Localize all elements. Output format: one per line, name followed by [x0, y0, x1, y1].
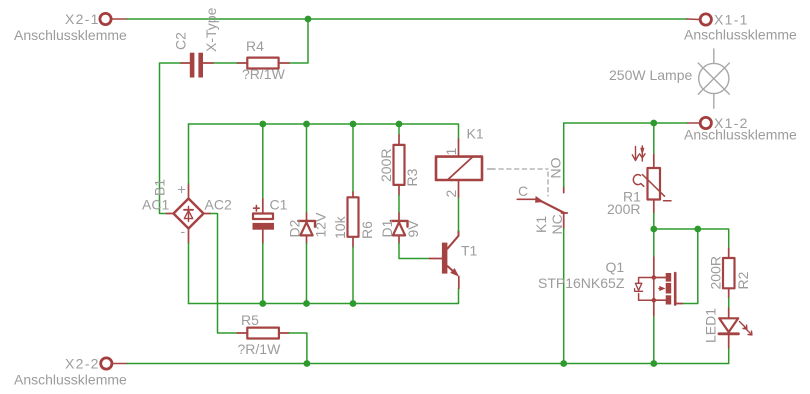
svg-text:K1: K1 [467, 126, 484, 142]
relay contact K1 [517, 198, 536, 200]
wire C1 to bottom rail [262, 244, 264, 304]
svg-text:12V: 12V [313, 212, 329, 238]
wire top rail to C1 [262, 124, 264, 199]
zener diode D2 [306, 213, 308, 222]
wire top rail to R3 [398, 124, 400, 135]
terminal X1-1 [700, 14, 711, 25]
svg-text:D1: D1 [379, 219, 395, 237]
transistor T1 [430, 258, 442, 260]
lamp 250W [699, 63, 729, 93]
relay coil K1 [458, 139, 460, 157]
dash mechanical pin (K1) [488, 168, 496, 170]
junction mid node at drain [650, 226, 657, 233]
wire R5 to bottom net [289, 333, 307, 364]
wire C2 left down to bridge AC1 [160, 63, 181, 214]
wire node down to Q1 drain [653, 229, 655, 257]
svg-text:Anschlussklemme: Anschlussklemme [684, 127, 797, 143]
junction bottom net at Q1 source [650, 360, 657, 367]
wire mid node rail [654, 229, 729, 248]
junction bottom net at R5 [304, 360, 311, 367]
wire NO net to X1-2 [564, 122, 687, 124]
pin NO stub (K1 contact) [563, 187, 565, 193]
svg-text:NC: NC [549, 214, 565, 234]
LED LED1 [728, 308, 730, 318]
svg-text:X2-1: X2-1 [65, 11, 100, 27]
wire R1 to mid node [653, 213, 655, 229]
body zener of Q1 [639, 278, 654, 301]
svg-text:?R/1W: ?R/1W [238, 341, 282, 357]
svg-text:X-Type: X-Type [203, 7, 219, 52]
svg-text:STP16NK65Z: STP16NK65Z [538, 275, 625, 291]
wire top DC rail [189, 124, 459, 139]
wire top net X2-1 to X1-1 [127, 18, 687, 20]
svg-text:1: 1 [443, 148, 459, 156]
svg-text:200R: 200R [708, 256, 724, 289]
wire bridge plus up to top rail [188, 124, 190, 184]
svg-text:9V: 9V [405, 220, 421, 238]
svg-text:NO: NO [548, 157, 564, 178]
svg-text:K1: K1 [533, 216, 549, 233]
resistor R1 (adjustable) [653, 154, 655, 168]
LED light arrows [740, 322, 747, 329]
terminal X2-1 [100, 13, 111, 24]
svg-text:+: + [178, 181, 186, 197]
wire junction down to R4 [289, 19, 308, 63]
arrows above R1 [632, 147, 638, 161]
dashed link coil to contact [499, 169, 548, 196]
junction top rail at R6 [350, 121, 357, 128]
wire bottom net X2-2 to LED1 [127, 348, 729, 364]
junction X1-2 net at R1 [650, 120, 657, 127]
svg-text:LED1: LED1 [703, 308, 719, 343]
capacitor C2 [181, 62, 190, 64]
zener diode D1 [398, 213, 400, 222]
wire NC down to bottom net [563, 229, 565, 364]
svg-text:R5: R5 [241, 312, 259, 328]
wire relay to T1 collector [458, 197, 460, 231]
svg-text:200R: 200R [607, 201, 640, 217]
wire R4 to C2 [213, 62, 237, 64]
junction bottom rail at R6 [350, 300, 357, 307]
junction bottom net at NC [560, 360, 567, 367]
svg-text:Q1: Q1 [606, 259, 625, 275]
svg-text:X2-2: X2-2 [65, 356, 100, 372]
wire Q1 source to bottom net [653, 316, 655, 364]
svg-text:AC2: AC2 [205, 197, 232, 213]
svg-text:Anschlussklemme: Anschlussklemme [14, 27, 127, 43]
wire AC2 down to R5 [211, 214, 238, 334]
mosfet Q1 [653, 257, 655, 278]
wire bridge minus down to bottom rail [188, 243, 190, 304]
svg-text:B1: B1 [152, 179, 168, 196]
svg-text:250W Lampe: 250W Lampe [609, 67, 692, 83]
svg-text:R4: R4 [246, 38, 264, 54]
svg-text:10k: 10k [332, 215, 348, 239]
resistor R5 [237, 332, 247, 334]
wire R3 to D1 [398, 195, 400, 213]
pin NC stub (K1 contact) [563, 213, 565, 229]
bridge rectifier B1 [167, 213, 174, 215]
svg-text:-: - [181, 223, 186, 239]
wire gate of Q1 up to node [682, 229, 697, 304]
svg-text:C2: C2 [173, 32, 189, 50]
terminal X2-2 [101, 358, 112, 369]
wire R2 to LED1 [728, 298, 730, 308]
svg-text:R3: R3 [404, 168, 420, 186]
wire bottom DC rail [189, 288, 459, 303]
wire R6 to bottom rail [352, 247, 354, 304]
resistor R4 [237, 62, 247, 64]
svg-text:R6: R6 [359, 221, 375, 239]
wire top rail to R6 [352, 124, 354, 192]
resistor R3 [398, 135, 400, 145]
svg-text:R2: R2 [735, 271, 751, 289]
wire junction down to R1 [653, 123, 655, 154]
junction top rail at R3 [396, 121, 403, 128]
junction top rail at C1 [259, 121, 266, 128]
terminal X1-2 [700, 117, 711, 128]
junction bottom rail at D2 [303, 300, 310, 307]
junction mid node at gate [694, 226, 701, 233]
stub Q1 source [653, 300, 655, 316]
svg-text:C: C [518, 183, 528, 199]
resistor R6 [352, 192, 354, 197]
svg-text:X1-1: X1-1 [714, 12, 749, 28]
junction top net [305, 16, 312, 23]
capacitor C1 [262, 199, 264, 214]
svg-text:AC1: AC1 [142, 197, 169, 213]
svg-text:T1: T1 [461, 243, 478, 259]
svg-text:Anschlussklemme: Anschlussklemme [14, 372, 127, 388]
junction bottom rail at C1 [259, 300, 266, 307]
wire D1 to T1 base [399, 243, 430, 259]
svg-text:?R/1W: ?R/1W [242, 66, 286, 82]
junction top rail at D2 [303, 121, 310, 128]
svg-text:200R: 200R [378, 149, 394, 182]
wire NO up to X1-2 net [563, 123, 565, 187]
resistor R2 [728, 248, 730, 258]
svg-text:C1: C1 [270, 197, 288, 213]
wire D2 to bottom rail [306, 243, 308, 304]
wire top rail to D2 [306, 124, 308, 213]
svg-text:Anschlussklemme: Anschlussklemme [684, 27, 797, 43]
svg-text:2: 2 [443, 190, 459, 198]
svg-text:D2: D2 [287, 219, 303, 237]
